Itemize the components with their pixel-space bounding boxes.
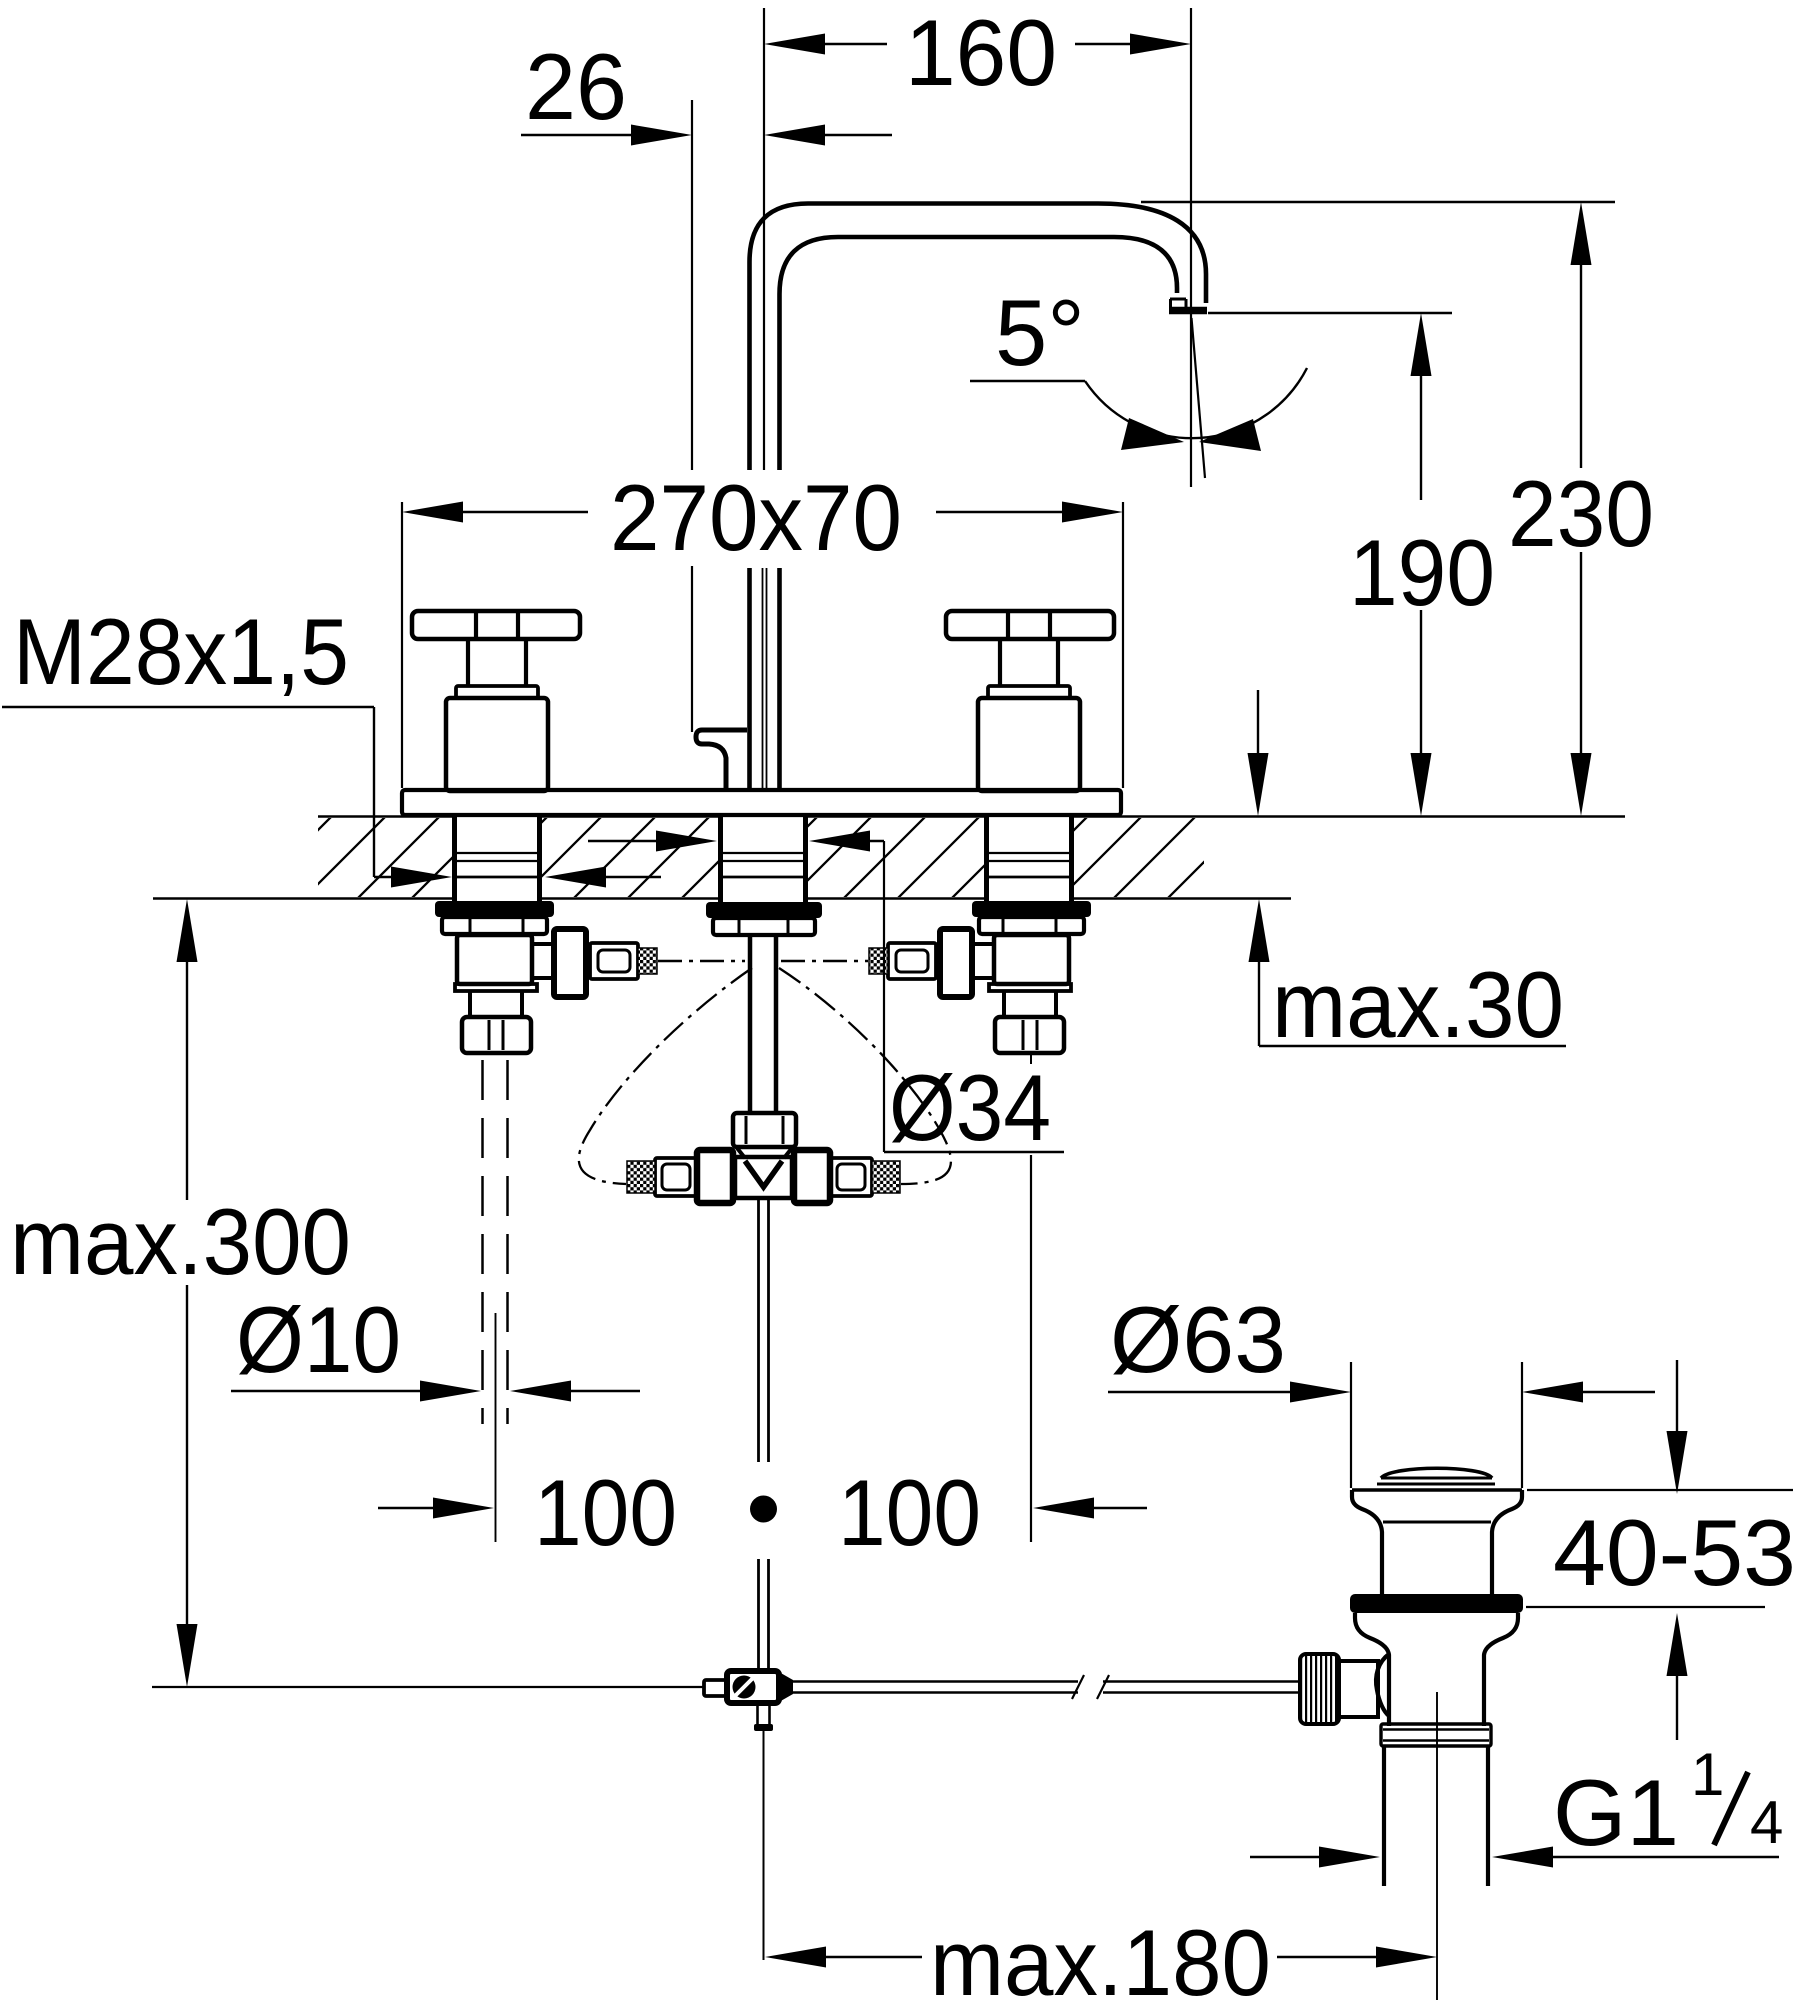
left hose adapter	[590, 943, 638, 979]
ref line spout outlet	[1208, 312, 1452, 314]
left valve body	[457, 935, 532, 984]
drain flange neck right	[1492, 1490, 1522, 1594]
shank cutouts	[452, 808, 542, 906]
T left adapter	[655, 1158, 697, 1196]
dim 40-53	[1676, 1360, 1678, 1434]
left compression nut	[462, 1017, 531, 1053]
svg-text:160: 160	[905, 0, 1057, 105]
5 degree arc	[1085, 368, 1307, 438]
drain stopper cap	[1381, 1468, 1492, 1478]
pull rod upper	[757, 1198, 760, 1462]
drain gasket	[1350, 1594, 1523, 1613]
drain centreline	[1436, 1692, 1438, 2000]
right compression nut	[995, 1017, 1064, 1053]
spout riser inner bore lines	[762, 568, 764, 790]
left valve side port	[532, 944, 554, 978]
tube compression nut	[733, 1113, 796, 1147]
hose centreline right	[781, 960, 868, 962]
right valve lower flange	[989, 984, 1071, 991]
svg-text:40-53: 40-53	[1553, 1500, 1796, 1605]
countertop top edge	[318, 815, 452, 818]
left cross handle bar	[412, 611, 580, 639]
T right braid	[872, 1161, 900, 1193]
left handle collar	[456, 686, 538, 698]
5 degree leader	[970, 380, 1085, 382]
dim Oe63	[1108, 1391, 1293, 1393]
svg-text:max.180: max.180	[930, 1910, 1271, 2000]
left handle stem	[466, 639, 470, 686]
T right nut	[794, 1150, 830, 1203]
right shank locknut	[979, 917, 1084, 934]
rod joint pivot block	[727, 1671, 779, 1703]
spout inner contour	[780, 237, 1178, 472]
pivot left link	[704, 1680, 727, 1696]
dim 160	[822, 43, 887, 45]
drain coupling ring	[1381, 1724, 1491, 1746]
dim 230	[1571, 202, 1592, 265]
svg-text:4: 4	[1750, 1789, 1783, 1856]
svg-text:1: 1	[1691, 1741, 1724, 1808]
drain ball joint bulge	[1376, 1654, 1389, 1716]
right hose coupling nut	[940, 929, 972, 997]
drain lower flange left	[1355, 1613, 1389, 1726]
svg-text:26: 26	[525, 34, 627, 139]
right hose braid	[869, 948, 888, 974]
centre shank locknut	[713, 918, 815, 935]
svg-text:100: 100	[534, 1460, 677, 1565]
drain knurled knob	[1300, 1654, 1339, 1724]
svg-text:270x70: 270x70	[610, 465, 902, 570]
right handle body	[978, 698, 1080, 791]
dim 26 extension	[691, 100, 693, 732]
dim 270x70	[402, 502, 463, 523]
centre shank tube	[748, 935, 753, 1113]
svg-text:max.300: max.300	[10, 1189, 351, 1294]
left shank locknut	[442, 917, 547, 934]
hose centreline left	[658, 960, 745, 962]
spout tip outlet	[1170, 298, 1186, 301]
svg-text:190: 190	[1349, 520, 1495, 625]
drain flange neck left	[1352, 1490, 1382, 1594]
left shank gasket	[435, 901, 554, 917]
right handle collar	[988, 686, 1070, 698]
svg-text:230: 230	[1508, 461, 1654, 566]
dim max180	[765, 1947, 826, 1968]
svg-text:M28x1,5: M28x1,5	[13, 599, 349, 704]
left valve lower flange	[455, 984, 537, 991]
nut taper	[737, 1148, 745, 1158]
hose swing arc right	[779, 968, 951, 1184]
drain lower flange right	[1484, 1613, 1518, 1726]
dim 100-100	[1030, 1155, 1032, 1542]
right valve body	[994, 935, 1069, 984]
rod break marks	[1072, 1675, 1084, 1699]
left valve lower neck	[468, 991, 472, 1017]
right hose adapter	[888, 943, 936, 979]
pivot screw	[733, 1676, 756, 1699]
ref line drain gasket	[1526, 1606, 1765, 1608]
centre shank gasket	[706, 902, 822, 918]
dim max300	[177, 899, 198, 962]
T right adapter	[830, 1158, 872, 1196]
lift rod knob (hook) on riser	[696, 730, 747, 790]
svg-text:5°: 5°	[995, 280, 1085, 385]
T left braid	[627, 1161, 655, 1193]
centre dot	[750, 1496, 777, 1523]
dim G1 1/4	[1250, 1856, 1322, 1858]
spout outer contour	[750, 204, 1207, 473]
M28 leader	[2, 706, 374, 708]
T left nut	[697, 1150, 733, 1203]
svg-text:max.30: max.30	[1272, 952, 1564, 1057]
escutcheon base plate 270x70	[402, 790, 1121, 815]
spout axis line	[1192, 318, 1206, 478]
right shank gasket	[972, 901, 1091, 917]
right cross handle bar	[946, 611, 1114, 639]
svg-text:100: 100	[838, 1460, 981, 1565]
dim 270x70 extensions	[401, 502, 403, 788]
right handle stem	[998, 639, 1002, 686]
left valve shank	[452, 813, 457, 901]
rod extension line	[763, 1731, 765, 1960]
right valve side port	[972, 944, 994, 978]
dim Oe63 extensions	[1350, 1362, 1352, 1488]
hose swing arc left	[579, 968, 752, 1184]
horizontal actuating rod	[793, 1680, 1078, 1683]
T connector body	[735, 1157, 792, 1198]
right handle hub lines	[1006, 611, 1010, 639]
right valve lower neck	[1002, 991, 1006, 1017]
ref line spout top	[1141, 201, 1615, 203]
pull rod lower	[757, 1559, 760, 1672]
countertop hatch section	[250, 816, 1358, 898]
dim 26	[521, 134, 634, 136]
right valve centre mark	[1030, 1053, 1032, 1064]
left hose braid	[638, 948, 657, 974]
label 270x70	[600, 470, 910, 566]
Oe10 pipe centreline	[495, 1313, 497, 1542]
dim Oe34	[588, 840, 659, 842]
dim 160 extension lines	[763, 8, 765, 472]
drain tailpipe	[1382, 1746, 1386, 1886]
svg-text:G1: G1	[1553, 1760, 1679, 1865]
pivot right cone	[779, 1672, 793, 1702]
svg-text:Ø10: Ø10	[236, 1287, 401, 1392]
pivot lower stub	[756, 1703, 759, 1725]
countertop bottom edge	[153, 897, 452, 900]
svg-text:Ø34: Ø34	[889, 1055, 1051, 1160]
drain flange top	[1352, 1488, 1522, 1491]
dim Oe10	[231, 1390, 423, 1392]
check valve symbol	[745, 1161, 782, 1187]
right valve shank	[984, 813, 989, 901]
Oe10 pipe dashed	[481, 1060, 484, 1424]
dim 190	[1411, 313, 1432, 376]
left handle hub lines	[474, 611, 478, 639]
dim max30	[1257, 690, 1259, 756]
ref line drain flange	[1527, 1489, 1793, 1491]
svg-text:Ø63: Ø63	[1110, 1287, 1286, 1392]
drain knob block	[1339, 1661, 1378, 1717]
left handle body	[446, 698, 548, 791]
left hose coupling nut	[554, 929, 586, 997]
drain body inner line	[1383, 1521, 1491, 1524]
centre shank	[718, 813, 723, 902]
